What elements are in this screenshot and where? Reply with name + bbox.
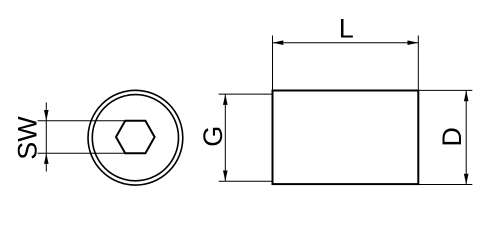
svg-text:L: L	[339, 14, 354, 44]
svg-text:SW: SW	[12, 116, 42, 160]
svg-text:G: G	[198, 126, 228, 147]
svg-text:D: D	[437, 127, 467, 147]
